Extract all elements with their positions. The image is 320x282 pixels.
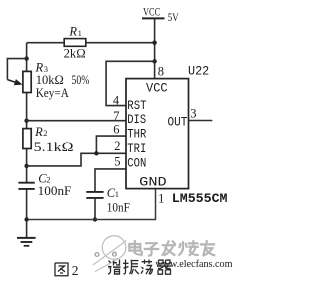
capacitor C2 xyxy=(18,183,34,189)
器 xyxy=(157,260,172,274)
label C1 xyxy=(107,186,119,200)
watermark logo xyxy=(93,236,127,272)
友 xyxy=(201,241,214,255)
svg-text:CON: CON xyxy=(127,156,146,170)
wire CON pin5 to C1 xyxy=(95,169,126,192)
capacitor C1 xyxy=(86,192,103,198)
svg-text:7: 7 xyxy=(113,109,119,123)
ground xyxy=(17,238,36,246)
wire DIS pin7 xyxy=(27,120,126,122)
svg-text:R: R xyxy=(34,125,43,139)
svg-text:THR: THR xyxy=(127,128,146,142)
svg-text:50%: 50% xyxy=(72,73,90,87)
wire VCC trunk xyxy=(154,18,156,78)
potentiometer R3 xyxy=(7,59,31,93)
svg-text:8: 8 xyxy=(158,64,164,78)
junction R3 wiper node xyxy=(24,56,28,60)
junction THR-TRI xyxy=(94,151,98,155)
wire ground run to pin1 xyxy=(27,189,156,220)
svg-text:VCC: VCC xyxy=(146,81,168,95)
svg-text:1: 1 xyxy=(78,28,82,38)
wire VCC to R1 top xyxy=(27,42,155,44)
value 10kΩ 50% xyxy=(36,72,90,87)
svg-text:5V: 5V xyxy=(168,10,179,24)
label C2 xyxy=(38,172,50,186)
svg-text:2: 2 xyxy=(114,139,120,153)
junction DIS node xyxy=(24,119,28,123)
svg-text:100nF: 100nF xyxy=(38,183,72,198)
svg-text:VCC: VCC xyxy=(143,7,160,19)
junction TRI node xyxy=(24,164,28,168)
svg-text:10nF: 10nF xyxy=(107,200,130,214)
svg-text:Key=A: Key=A xyxy=(36,86,69,100)
svg-text:6: 6 xyxy=(113,123,119,137)
svg-text:DIS: DIS xyxy=(127,113,146,127)
电 xyxy=(129,241,142,255)
caption xie zhen dang qi xyxy=(108,259,172,274)
svg-text:4: 4 xyxy=(113,93,120,107)
resistor R2 xyxy=(23,129,31,149)
svg-text:OUT: OUT xyxy=(168,115,188,129)
svg-text:R: R xyxy=(68,25,77,39)
发 xyxy=(163,241,175,255)
荡 xyxy=(141,259,153,274)
wire TRI pin2 to rail xyxy=(27,153,126,166)
子 xyxy=(145,243,158,255)
resistor R1 xyxy=(64,39,86,47)
label R1 xyxy=(68,25,81,39)
wire left rail xyxy=(26,43,28,238)
junction VCC-RST xyxy=(152,59,156,63)
wire THR pin6 link xyxy=(96,136,126,153)
label R2 xyxy=(34,125,47,139)
wire RST pin4 to VCC xyxy=(106,61,155,105)
wire OUT pin3 xyxy=(189,120,213,122)
svg-text:3: 3 xyxy=(190,107,196,121)
junction rail-ground xyxy=(24,217,28,221)
caption 图 2 xyxy=(55,263,68,276)
junction VCC-R1 xyxy=(152,41,156,45)
wire C1 to ground run xyxy=(94,198,96,220)
power VCC xyxy=(142,7,165,19)
svg-text:LM555CM: LM555CM xyxy=(172,192,228,206)
svg-text:5: 5 xyxy=(114,155,120,169)
svg-text:U22: U22 xyxy=(188,65,209,79)
watermark text dianzifashaoyou xyxy=(129,241,214,255)
IC U22 LM555CM body xyxy=(126,79,189,189)
svg-text:2kΩ: 2kΩ xyxy=(64,45,86,60)
谐 xyxy=(108,259,121,274)
label R3 xyxy=(35,61,48,75)
svg-text:TRI: TRI xyxy=(127,142,146,156)
振 xyxy=(123,259,139,274)
烧 xyxy=(179,241,198,255)
svg-text:5.1kΩ: 5.1kΩ xyxy=(34,139,74,154)
svg-text:1: 1 xyxy=(158,192,164,206)
svg-text:1: 1 xyxy=(115,189,119,199)
svg-text:2: 2 xyxy=(72,263,79,278)
svg-text:GND: GND xyxy=(139,175,167,189)
junction C1-ground xyxy=(93,217,97,221)
svg-text:2: 2 xyxy=(43,128,47,138)
svg-text:RST: RST xyxy=(127,99,147,113)
